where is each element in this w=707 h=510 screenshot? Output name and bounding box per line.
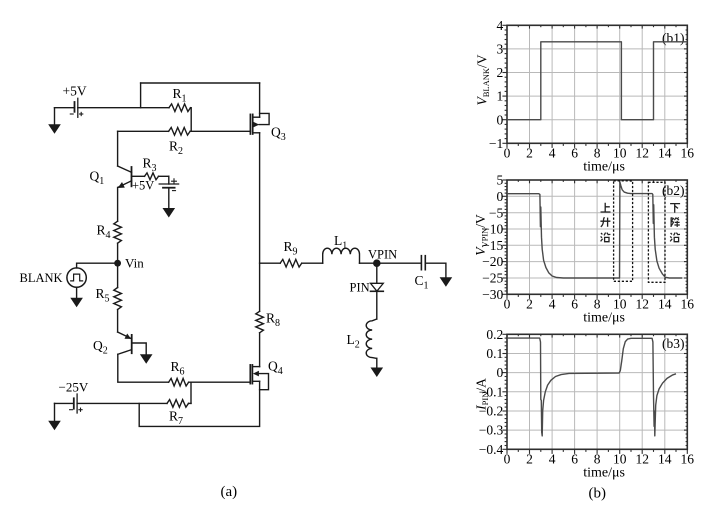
ground (L2) [372,358,382,375]
wire Q1 emitter to R4 [117,188,119,222]
resistor R2 [118,128,251,136]
ground (below -25V battery) [50,403,60,429]
svg-text:14: 14 [658,297,672,312]
svg-text:16: 16 [681,452,695,467]
wire top rail down to Q3 source [259,83,261,117]
ground (Q2 base) [141,355,151,363]
resistor R4 [114,221,122,243]
chart b3 ticks [502,334,687,454]
resistor R5 [114,288,122,310]
chart b3 grid [507,334,687,449]
svg-text:Vin: Vin [125,256,144,271]
battery +5V (base bias) [159,176,179,190]
transistor Q2 (PNP) [118,332,147,355]
wire R6/R7 junction riser [190,382,192,403]
battery -25V [55,394,83,413]
svg-text:VPIN: VPIN [368,248,397,262]
svg-text:(b): (b) [589,486,607,502]
wire -25V to R7 [77,402,167,404]
chart b2 x tick labels [504,297,695,312]
resistor R3 [145,173,159,180]
svg-text:10: 10 [613,297,627,312]
resistor R9 [280,259,302,267]
chart b1 grid [507,25,687,143]
svg-text:4: 4 [549,146,556,161]
chart b3 axes frame [507,334,687,449]
chart b1 y tick labels [489,18,504,151]
wire R2 left down to Q1 collector [117,131,119,166]
svg-text:16: 16 [681,297,695,312]
chart b1 x tick labels [504,146,695,161]
chart b1 ticks [502,25,687,148]
svg-text:3: 3 [497,42,504,57]
svg-text:0: 0 [504,146,511,161]
svg-text:−0.4: −0.4 [479,442,504,457]
svg-text:4: 4 [497,18,504,33]
svg-text:0: 0 [497,112,504,127]
chart b2 grid [507,180,687,294]
svg-text:5: 5 [497,173,504,188]
svg-text:0: 0 [497,365,504,380]
svg-text:0: 0 [497,189,504,204]
svg-text:8: 8 [594,452,601,467]
wire R6 to Q4 gate [189,381,251,383]
svg-text:2: 2 [526,146,533,161]
node Vin [114,260,121,267]
svg-text:+5V: +5V [63,84,87,99]
annotation dashed box (falling edge) [648,182,665,282]
transistor Q4 (NMOS) [250,365,268,390]
wire R9 to L1 [302,262,323,264]
ground (below BLANK) [72,287,82,306]
svg-text:time/μs: time/μs [583,160,625,175]
svg-text:0: 0 [504,452,511,467]
wire drain column to R9 [260,262,281,264]
svg-text:BLANK: BLANK [20,271,63,285]
wire R4 to Vin [117,243,119,287]
svg-text:12: 12 [635,452,649,467]
svg-text:6: 6 [571,297,578,312]
svg-text:2: 2 [526,297,533,312]
svg-text:PIN: PIN [350,281,370,295]
diode PIN [371,283,384,291]
ground (below base battery) [164,188,174,217]
svg-text:4: 4 [549,297,556,312]
wire R8 bottom to Q4 drain [259,333,261,367]
transistor Q3 (PMOS) [250,113,269,134]
transistor Q1 (NPN) [118,166,145,188]
wire VPIN down to diode [376,263,378,283]
chart b1 axes frame [507,25,687,143]
chart b3 y tick labels [479,327,504,457]
wire Q3 drain down [259,133,261,311]
wire bottom rail [139,381,259,426]
battery +5V (top left) [55,98,83,117]
resistor R1 [169,104,191,131]
svg-text:14: 14 [658,452,672,467]
svg-text:(b1): (b1) [662,31,685,46]
svg-text:−1: −1 [489,136,503,151]
chart b3 signal trace [507,338,676,436]
svg-text:14: 14 [658,146,672,161]
wire diode to L2 [376,291,378,319]
svg-text:10: 10 [613,452,627,467]
ground (below +5V battery) [50,108,60,133]
svg-text:−25V: −25V [59,380,89,395]
wire R5 to Q2 emitter [117,310,119,333]
resistor R8 [256,311,264,333]
svg-text:time/μs: time/μs [583,466,625,481]
chart b3 x tick labels [504,452,695,467]
wire BLANK to Vin [77,263,118,268]
annotation text falling edge (xia jiang yan) [670,204,680,242]
svg-text:(b3): (b3) [662,336,685,351]
ground (C1) [441,278,451,286]
svg-text:0: 0 [504,297,511,312]
svg-text:(a): (a) [221,484,238,500]
wire +5V rail to R1 [78,107,169,109]
chart b2 signal trace [507,182,682,278]
svg-text:1: 1 [497,89,504,104]
inductor L2 [366,319,377,358]
svg-text:2: 2 [526,452,533,467]
svg-text:2: 2 [497,65,504,80]
svg-text:−25: −25 [482,271,503,286]
inductor L1 [323,248,360,263]
capacitor C1 [421,256,446,278]
resistor R6 [169,378,189,386]
chart b1 signal trace [507,42,687,120]
svg-text:−30: −30 [482,287,503,302]
svg-text:8: 8 [594,297,601,312]
chart b2 axes frame [507,180,687,294]
svg-text:time/μs: time/μs [583,311,625,326]
svg-text:12: 12 [635,297,649,312]
resistor R7 [167,400,191,408]
svg-text:6: 6 [571,452,578,467]
node VPIN [373,259,381,267]
svg-text:10: 10 [613,146,627,161]
wire Q2 collector down to R6 line [118,354,169,382]
svg-text:0.1: 0.1 [486,346,503,361]
svg-text:+5V: +5V [132,179,154,193]
svg-text:16: 16 [681,146,695,161]
svg-text:−5: −5 [489,205,504,220]
svg-text:−0.3: −0.3 [479,423,504,438]
wire L1 to VPIN [360,262,422,264]
svg-text:4: 4 [549,452,556,467]
chart b2 y tick labels [482,173,503,302]
svg-text:12: 12 [635,146,649,161]
source BLANK (pulse generator) [67,268,86,287]
svg-text:8: 8 [594,146,601,161]
annotation dashed box (rising edge) [614,181,633,281]
svg-text:0.2: 0.2 [486,327,503,342]
wire top rail riser [140,83,142,108]
svg-text:6: 6 [571,146,578,161]
annotation text rising edge (shang sheng yan) [600,203,610,242]
chart b2 ticks [502,180,687,299]
wire top rail [141,82,260,84]
